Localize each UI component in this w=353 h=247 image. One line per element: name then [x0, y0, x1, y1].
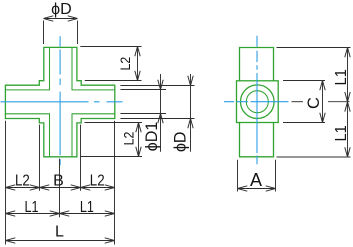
extension line arm outer bottom: [120, 118, 194, 120]
cross fitting outer contour (front view): [5, 47, 114, 156]
side view inner bore circle: [246, 91, 268, 113]
dim A: dimension line: [238, 188, 276, 190]
dim phiD: right extension line: [77, 21, 79, 45]
dim L2 bottom: lower extension line (tube end): [80, 156, 142, 158]
side view bottom tube: [240, 123, 274, 157]
extension line body right: [80, 125, 82, 191]
dim L2 bottom: upper extension line (body bottom): [85, 122, 143, 124]
side view top tube: [240, 48, 274, 81]
svg-text:L: L: [55, 223, 64, 240]
side view body square: [237, 81, 279, 123]
dim C: dimension line: [322, 81, 324, 123]
side view outer bore circle: [240, 85, 274, 119]
dim row L: dimension line: [6, 240, 115, 242]
dim L2 top: upper extension line (tube end): [80, 46, 141, 48]
svg-text:ϕD: ϕD: [51, 1, 72, 18]
dim row L2/B/L2: dimension line: [6, 187, 115, 189]
dim C: arrowheads: [320, 81, 325, 91]
dim phiD (arm): dimension line: [190, 74, 192, 152]
dim L2 bottom: arrowheads: [136, 123, 141, 133]
dim phiD (arm): arrowheads: [188, 76, 193, 86]
dim row L2/B/L2: arrowheads: [6, 185, 16, 190]
dim row L: arrowheads: [6, 238, 16, 243]
dim A: right extension line: [275, 160, 277, 192]
dim row L1/L1: arrowheads: [6, 211, 16, 216]
dim A: left extension line: [237, 160, 239, 192]
svg-text:A: A: [250, 170, 262, 190]
dim L2 top: lower extension line (body top): [85, 80, 142, 82]
svg-text:L1: L1: [333, 125, 350, 141]
vertical centerline (front view): [59, 36, 61, 165]
svg-text:ϕD: ϕD: [172, 132, 190, 153]
dim C: upper extension line (body top): [283, 80, 325, 82]
dim L1 top+bottom: dimension line: [347, 48, 349, 158]
dim L1 top/bottom: arrowheads: [345, 48, 350, 58]
dim row L1/L1: dimension line: [6, 213, 115, 215]
dim phiD1: arrowheads: [158, 80, 163, 90]
svg-text:L2: L2: [90, 173, 105, 190]
extension line arm inner bottom: [120, 113, 166, 115]
dim A: arrowheads: [238, 186, 248, 191]
extension line body left: [39, 125, 41, 191]
svg-text:B: B: [53, 173, 64, 190]
svg-text:L2: L2: [120, 131, 136, 145]
svg-text:L1: L1: [25, 199, 39, 216]
horizontal centerline (front view): [1, 101, 123, 103]
svg-text:L2: L2: [15, 173, 30, 190]
dim L2 top: arrowheads: [135, 47, 140, 57]
dim C: lower extension line (body bottom): [283, 122, 325, 124]
extension line center: [59, 159, 61, 218]
dim L1 top: upper extension line (tube end): [277, 47, 351, 49]
centerline reference extension (right segment): [328, 101, 350, 103]
vertical centerline (side view): [256, 36, 258, 165]
dim L1 bottom: lower extension line (tube end): [277, 156, 351, 158]
centerline reference extension (left segment): [292, 101, 304, 103]
extension line left arm end: [5, 121, 7, 245]
dim phiD1: dimension line: [160, 74, 162, 152]
extension line right arm end: [114, 121, 116, 245]
extension line arm outer top: [120, 85, 194, 87]
dim L2 top: dimension line: [137, 47, 139, 81]
dim phiD: left extension line: [43, 21, 45, 45]
horizontal centerline (side view): [224, 101, 289, 103]
cross fitting inner bore contour (front view): [5, 47, 114, 156]
dim phiD: dimension line: [44, 18, 78, 20]
svg-text:L1: L1: [80, 199, 94, 216]
svg-text:L2: L2: [117, 57, 133, 71]
svg-text:L1: L1: [333, 69, 350, 85]
dim phiD: arrowheads: [44, 16, 54, 21]
extension line arm inner top: [120, 89, 166, 91]
dim L2 bottom: dimension line: [138, 123, 140, 157]
svg-text:C: C: [305, 97, 323, 109]
svg-text:ϕD1: ϕD1: [143, 122, 161, 152]
